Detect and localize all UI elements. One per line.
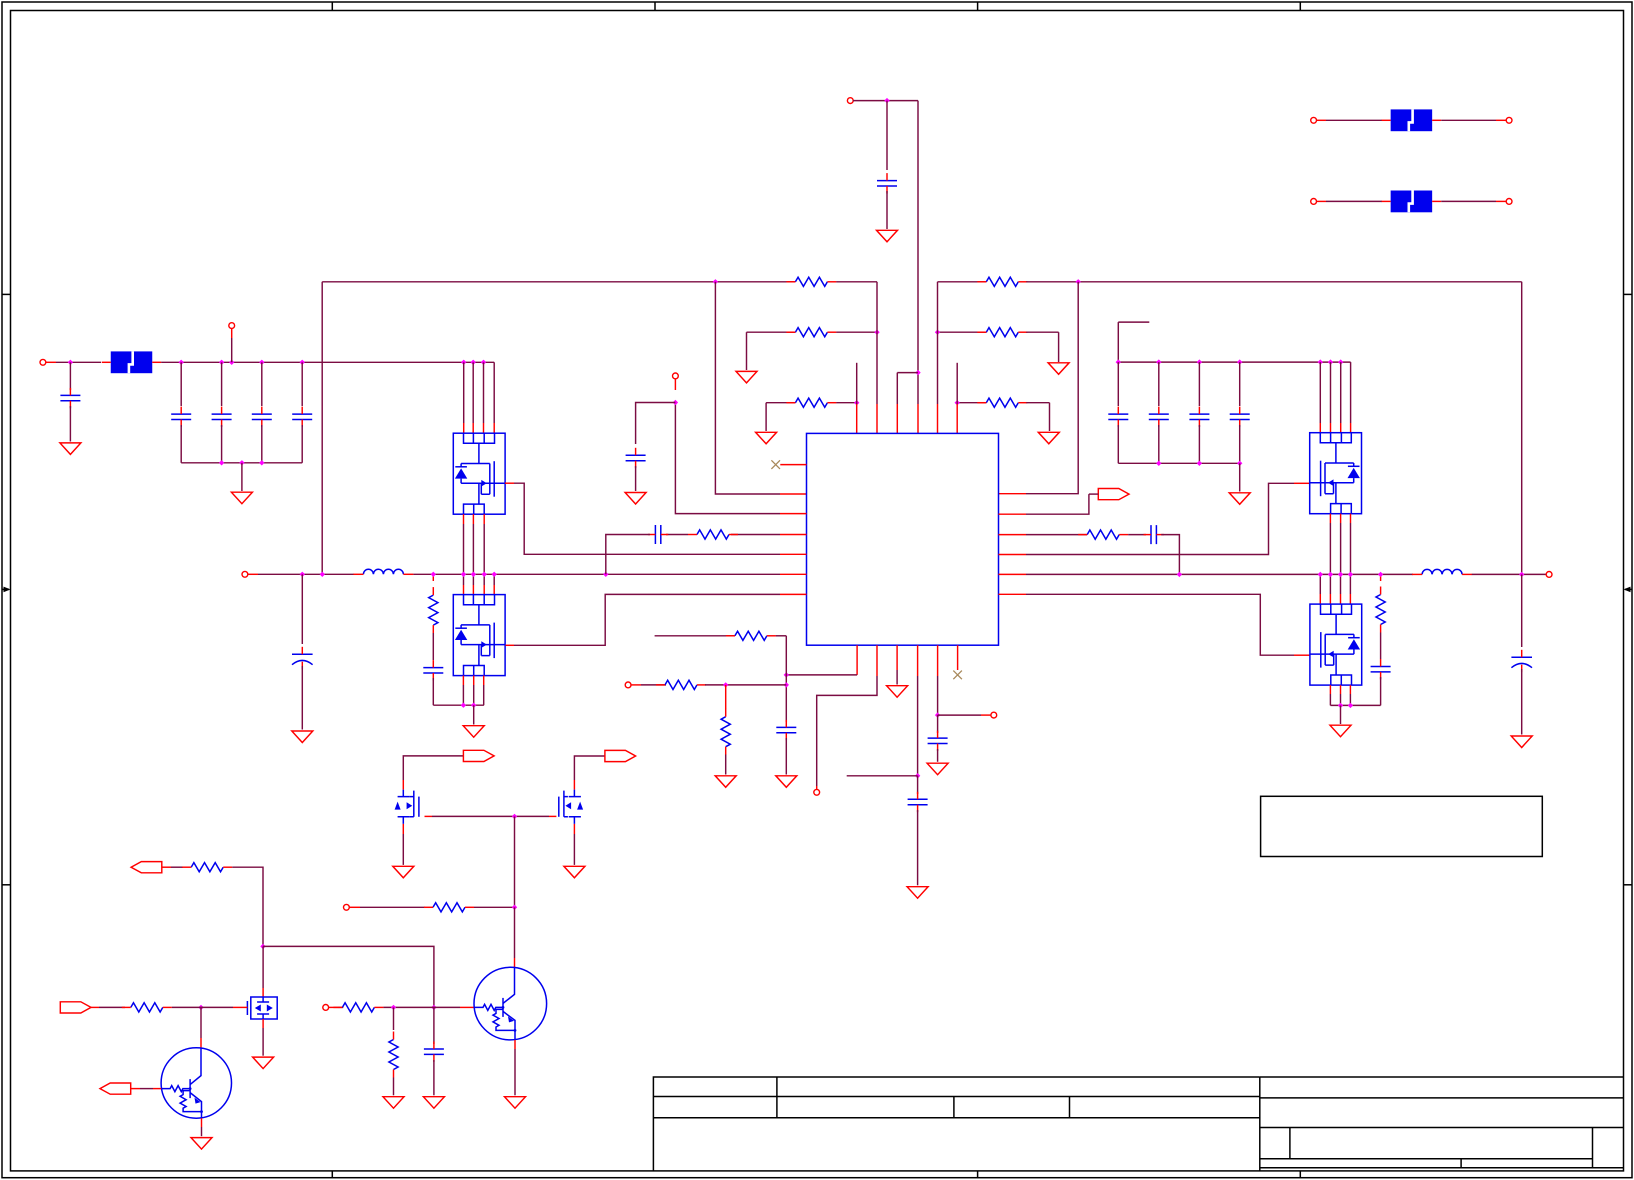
wire IC bottom pin6 NC	[957, 645, 959, 670]
wire to output bus right	[1161, 535, 1179, 575]
junction	[461, 360, 466, 365]
ground G10	[292, 731, 313, 743]
wire	[1319, 362, 1321, 423]
wire VCC top	[853, 100, 918, 102]
wires upper-left module bottom pins	[463, 514, 465, 524]
wire	[483, 524, 485, 574]
resistor R1	[795, 277, 827, 286]
wire	[1319, 574, 1321, 594]
wire	[483, 685, 485, 705]
border tick marks right	[1624, 293, 1633, 295]
wire	[432, 678, 434, 705]
resistor R13	[721, 717, 730, 747]
transistor Q7 small MOSFET	[251, 997, 277, 1019]
fuse F2	[1391, 191, 1433, 213]
wire to ground	[241, 463, 243, 491]
wire IC bottom pin2	[876, 645, 878, 676]
junction	[935, 712, 940, 717]
junction	[673, 400, 678, 405]
wire	[1026, 483, 1294, 554]
wire	[433, 704, 484, 706]
wire	[817, 676, 877, 786]
ground G23	[383, 1097, 404, 1109]
junction	[1156, 359, 1161, 364]
wire IC to upper-right module gate	[999, 554, 1027, 556]
capacitor C9	[655, 525, 660, 544]
resistor R14	[433, 903, 465, 912]
terminal VDD tap	[229, 323, 235, 329]
junction	[239, 460, 244, 465]
junction	[259, 360, 264, 365]
wire	[1380, 633, 1382, 660]
junction	[482, 572, 487, 577]
wire IC feedback RC left	[780, 534, 807, 536]
wire to cap	[937, 715, 939, 733]
junction	[784, 672, 789, 677]
wire	[675, 403, 780, 514]
resistor R10 snubber	[1376, 595, 1385, 625]
junction	[1116, 359, 1121, 364]
resistor R7 snubber	[429, 595, 438, 625]
fuse/ferrite FB1	[111, 351, 153, 373]
junction	[935, 330, 940, 335]
wire	[301, 574, 303, 644]
wire to ground	[473, 705, 475, 724]
wire divider branch	[725, 685, 727, 709]
wire	[231, 338, 233, 362]
resistor R2	[986, 277, 1018, 286]
transistor Q2 low-side module left	[453, 595, 505, 676]
wire	[483, 362, 485, 423]
wire	[937, 676, 939, 715]
capacitor C18	[776, 727, 796, 732]
ground G2	[736, 371, 757, 383]
capacitor C10	[626, 455, 646, 460]
terminal ctrl2 in	[323, 1005, 329, 1011]
junction	[1156, 461, 1161, 466]
junction	[1197, 359, 1202, 364]
wire snubber branch left	[432, 574, 434, 581]
terminal line C	[1311, 199, 1317, 205]
wire	[432, 815, 549, 817]
wire	[321, 282, 323, 575]
junction	[1338, 359, 1343, 364]
wire	[1118, 361, 1350, 363]
capacitor C2	[60, 395, 80, 400]
wire to ground	[1239, 463, 1241, 491]
wire to ground	[1340, 705, 1342, 724]
junction	[198, 1005, 203, 1010]
junction	[1378, 572, 1383, 577]
wire	[836, 402, 856, 404]
wire	[472, 574, 474, 585]
junction	[1076, 279, 1081, 284]
border tick marks left	[2, 293, 11, 295]
note box	[1261, 796, 1543, 856]
resistor R6	[986, 398, 1018, 407]
capacitor C1 VCC decoupling	[877, 181, 897, 186]
wire	[322, 281, 795, 283]
wire	[1340, 523, 1342, 574]
wire right small FET source to ground	[573, 824, 575, 834]
wire	[1349, 694, 1351, 705]
wire	[463, 362, 465, 423]
wire	[1128, 534, 1146, 536]
wire gate row	[425, 815, 433, 817]
wire Q8 emitter to ground	[201, 1118, 203, 1127]
ground G16	[887, 686, 908, 698]
junction	[471, 360, 476, 365]
wire	[1026, 494, 1089, 514]
wire IC to lower-right module gate	[999, 593, 1027, 595]
border tick marks top	[331, 2, 333, 11]
wire	[201, 1127, 203, 1136]
wire IC pin to bootstrap	[780, 513, 807, 515]
wire	[876, 282, 878, 404]
resistor R18	[389, 1040, 398, 1070]
title block left section	[653, 1077, 1259, 1171]
capacitor C21	[424, 1049, 444, 1054]
wire	[1198, 362, 1200, 406]
ground G7	[231, 492, 252, 504]
wire	[1239, 425, 1241, 463]
junction	[1348, 572, 1353, 577]
wire stub row	[847, 775, 918, 777]
terminal Vref out	[991, 712, 997, 718]
wires upper-right module bottom pins	[1329, 514, 1331, 523]
wire	[766, 402, 795, 404]
terminal speaker out L-	[242, 571, 248, 577]
wire	[463, 524, 465, 574]
wire	[262, 1028, 264, 1056]
junction	[784, 682, 789, 687]
no-connect	[953, 671, 962, 680]
wire	[1026, 402, 1049, 404]
junction	[1348, 703, 1353, 708]
border centre arrow left	[2, 588, 9, 590]
wire	[956, 363, 958, 404]
wire pin to step	[896, 373, 898, 404]
wire	[258, 573, 354, 575]
wire input to fuse	[56, 361, 101, 363]
junction	[461, 572, 466, 577]
wire	[1198, 425, 1200, 463]
border centre arrow right	[1625, 588, 1632, 590]
resistor R12	[665, 680, 697, 689]
title block right section	[1260, 1076, 1623, 1078]
wire to node	[232, 867, 263, 946]
transistor Q4 low-side module right	[1310, 604, 1362, 685]
wire	[514, 594, 780, 645]
wire	[261, 362, 263, 406]
ground G15	[715, 776, 736, 788]
resistor R4	[986, 328, 1018, 337]
transistor Q8 digital BJT	[161, 1048, 231, 1118]
wire Q2 source to IC	[506, 644, 515, 646]
junction	[229, 360, 234, 365]
junction	[219, 360, 224, 365]
resistor R3	[795, 328, 827, 337]
wire from fuse	[1441, 200, 1496, 202]
junction	[713, 279, 718, 284]
junction	[955, 400, 960, 405]
wire	[99, 1006, 125, 1008]
wire	[1329, 523, 1331, 574]
wire	[917, 810, 919, 885]
wire	[393, 1078, 395, 1096]
junction	[68, 360, 73, 365]
wire output bus to IC	[413, 573, 780, 575]
resistor R8	[697, 530, 729, 539]
wire	[1521, 574, 1523, 647]
border tick marks bottom	[331, 1171, 333, 1178]
wire to ground	[886, 191, 888, 229]
wire	[641, 684, 666, 686]
ground G12	[1330, 725, 1351, 737]
wire	[172, 1006, 193, 1008]
junction	[461, 703, 466, 708]
ground G19	[393, 866, 414, 878]
inductor L1 output filter	[363, 569, 403, 574]
ground G11	[463, 726, 484, 738]
wire	[221, 425, 223, 463]
wire	[180, 425, 182, 463]
junction	[481, 360, 486, 365]
wire	[472, 362, 474, 423]
ground G1	[877, 230, 898, 242]
wire IC bottom pin4	[917, 645, 919, 676]
wire	[937, 282, 939, 404]
junction	[603, 572, 608, 577]
wire	[836, 331, 877, 333]
junction	[300, 572, 305, 577]
wires lower-left module bottom pins	[462, 676, 464, 685]
junction	[391, 1005, 396, 1010]
wire IC bottom pin3 ground	[896, 645, 898, 670]
resistor R17	[342, 1003, 374, 1012]
wire	[715, 282, 780, 494]
junction	[512, 905, 517, 910]
wire	[886, 101, 888, 170]
transistor Q1 high-side module left	[453, 433, 505, 514]
junction	[179, 360, 184, 365]
wire	[462, 685, 464, 705]
wire	[69, 362, 71, 390]
wire	[655, 635, 735, 637]
ground G6	[60, 443, 81, 455]
no-connect	[771, 460, 780, 469]
wire	[140, 1088, 153, 1090]
wire	[1026, 331, 1058, 333]
wire	[180, 362, 182, 406]
wire IC bottom pin5	[937, 645, 939, 676]
junction	[431, 1005, 436, 1010]
wire	[725, 755, 727, 775]
terminal line A	[1311, 117, 1317, 123]
wire	[263, 946, 434, 1007]
wire	[433, 1007, 435, 1044]
wire R1 to corner	[836, 281, 877, 283]
wire snubber branch right	[1380, 574, 1382, 581]
wire	[896, 670, 898, 685]
wire left supply rail	[161, 361, 494, 363]
terminal audio input L	[40, 359, 46, 365]
capacitor C8 output	[292, 653, 313, 655]
wire	[1118, 321, 1149, 323]
wire	[261, 425, 263, 463]
flag gate drive A	[463, 750, 494, 761]
wire flag tail	[1089, 493, 1098, 495]
wire	[483, 574, 485, 585]
capacitor C17 output	[1511, 656, 1532, 658]
wire	[1521, 282, 1523, 575]
wire	[433, 1060, 435, 1095]
wire	[574, 756, 605, 780]
terminal VCC input	[847, 98, 853, 104]
wire	[210, 1006, 233, 1008]
ground G13	[1511, 736, 1532, 748]
junction	[915, 370, 920, 375]
flag standby ctrl	[100, 1083, 131, 1094]
junction	[1318, 572, 1323, 577]
wire	[1380, 677, 1382, 705]
capacitor C19	[908, 799, 928, 804]
flag ctrl in	[60, 1002, 91, 1013]
wire	[493, 362, 495, 423]
wire	[1350, 362, 1352, 423]
wire	[221, 362, 223, 406]
wire	[1117, 322, 1119, 362]
fuse F1	[1391, 109, 1433, 131]
wire to output bus	[606, 535, 650, 575]
wire	[463, 574, 465, 585]
wire through dot	[193, 1006, 210, 1008]
junction	[492, 572, 497, 577]
wire IC feedback RC right	[999, 534, 1027, 536]
ground G3	[1048, 363, 1069, 375]
wire	[786, 674, 857, 676]
wire	[301, 425, 303, 463]
wire	[200, 1007, 202, 1038]
ground G8	[1229, 493, 1250, 505]
wire	[301, 666, 303, 730]
transistor Q9 digital BJT	[474, 967, 547, 1040]
junction	[260, 944, 265, 949]
wire	[785, 636, 787, 722]
wire	[1329, 574, 1331, 594]
wire	[402, 834, 404, 865]
wire Q9 emitter to ground	[514, 1040, 516, 1049]
wire	[1118, 462, 1239, 464]
wire	[938, 331, 987, 333]
terminal speaker out R-	[1546, 572, 1552, 578]
wire	[1158, 362, 1160, 406]
wire Q1 source to IC	[505, 482, 514, 484]
junction	[1328, 572, 1333, 577]
wire	[635, 466, 637, 491]
wire	[1026, 534, 1087, 536]
wire	[1117, 425, 1119, 463]
wire	[938, 714, 981, 716]
junction	[1318, 359, 1323, 364]
junction	[1237, 359, 1242, 364]
wire	[776, 635, 787, 637]
inductor L2 output filter	[1422, 569, 1462, 574]
wire	[338, 1006, 343, 1008]
wire	[1350, 523, 1352, 574]
wire to ground	[746, 332, 748, 370]
junction	[1197, 461, 1202, 466]
wire	[1340, 694, 1342, 705]
wire	[1026, 282, 1078, 494]
junction	[1338, 703, 1343, 708]
wire	[1340, 362, 1342, 423]
terminal line B	[1506, 117, 1512, 123]
wire	[403, 756, 463, 780]
wire IC pin to flag	[999, 513, 1027, 515]
wire	[1026, 573, 1413, 575]
wire R2 to right corner	[1026, 281, 1521, 283]
wire step	[897, 372, 918, 374]
junction	[512, 814, 517, 819]
wire	[1330, 362, 1332, 423]
wire	[785, 738, 787, 775]
terminal VREG	[673, 373, 679, 379]
wire	[937, 749, 939, 762]
wire	[69, 406, 71, 442]
wire	[917, 676, 919, 776]
resistor R11	[735, 631, 767, 640]
wire	[383, 1006, 460, 1008]
ground G17	[927, 763, 948, 775]
wire	[957, 402, 986, 404]
junction	[259, 460, 264, 465]
junction	[300, 360, 305, 365]
ground G14	[776, 776, 797, 788]
transistor Q5 small MOSFET	[402, 790, 404, 824]
junction	[874, 330, 879, 335]
wire to fuse	[1326, 200, 1382, 202]
wire	[917, 101, 919, 404]
transistor Q3 high-side module right	[1310, 433, 1362, 514]
flag standby in	[131, 862, 162, 873]
terminal sense	[814, 789, 820, 795]
junction	[320, 572, 325, 577]
terminal bias	[625, 682, 631, 688]
wire	[1349, 574, 1351, 594]
ground G20	[564, 866, 585, 878]
flag gate drive B	[605, 750, 636, 761]
ground G18	[907, 887, 928, 899]
wire	[432, 633, 434, 660]
ground G24	[423, 1097, 444, 1109]
wire left small FET source to ground	[402, 824, 404, 834]
wire right small FET drain to flag	[573, 780, 575, 790]
op-amp U1 class-D amplifier IC body	[807, 433, 999, 645]
wire to fuse	[1326, 119, 1382, 121]
wire Q7 source to ground	[262, 1019, 264, 1028]
ground G4	[756, 432, 777, 444]
wire	[473, 685, 475, 705]
wire	[1340, 574, 1342, 594]
ground G21	[253, 1057, 274, 1069]
wire	[1158, 425, 1160, 463]
wire	[1330, 704, 1380, 706]
wire	[1329, 694, 1331, 705]
wire to ground	[1058, 332, 1060, 362]
wire	[856, 363, 858, 404]
wire left small FET drain to flag	[402, 780, 404, 790]
